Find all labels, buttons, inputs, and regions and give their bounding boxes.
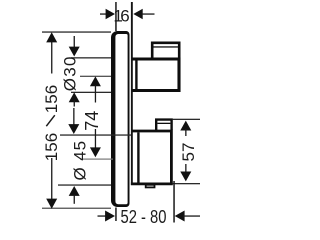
dim 52-80 left ext [115,208,117,222]
lower handle body U2 [131,131,172,184]
escutcheon plate (side profile pill) [111,31,130,207]
svg-text:156: 156 [42,133,61,161]
dim 52-80 arrow right [175,211,185,222]
dim 156/156 line upper [51,42,52,74]
dim 16 tail left [100,13,109,14]
ext line handle axis [80,76,111,77]
ext line 57 bottom [173,183,201,184]
svg-text:Ø 45: Ø 45 [71,140,90,180]
dim O30 tail bottom [74,100,75,107]
dim 156/156 line lower [51,158,52,201]
ext line handle top [71,57,111,58]
lower handle grip [156,120,171,130]
svg-text:16: 16 [113,7,129,26]
dim 52-80 tail right [183,215,200,216]
dim 16 arrow right [133,9,142,19]
dim 156/156 arrow bottom [46,199,57,209]
svg-text:57: 57 [179,143,198,162]
ext line lower grip top left [60,134,131,135]
ext line plate top [42,31,111,32]
dim 52-80 arrow left [105,211,115,222]
svg-text:52 - 80: 52 - 80 [121,207,167,227]
ext line lower axis [80,159,113,160]
dim O45 arrow top [68,124,79,134]
svg-text:156: 156 [42,85,61,113]
dim 156/156 arrow top [46,32,57,42]
dim O30 arrow bottom [69,92,80,102]
lower bottom tab [146,185,155,188]
ext line lower body bottom left [58,184,111,185]
dim 57 arrow bottom [180,172,191,182]
dim 74 arrow top [90,76,101,86]
top handle base line [135,61,137,90]
ext line plate bottom [42,208,111,209]
dim 57 tail top [185,129,186,136]
label slash [46,115,55,126]
dim 74 line upper [95,85,96,103]
lower handle base line [137,132,139,182]
dim O30 arrow top [69,47,80,57]
lower grip inner line [157,123,170,124]
dim 57 arrow top [180,121,191,131]
dim O45 tail bottom [74,195,75,204]
top handle body U1 [132,59,179,91]
top handle grip [152,43,179,58]
ext line 57 top [173,119,201,120]
dim 16 arrow left [106,9,115,19]
dim 74 arrow bottom [90,147,101,157]
dim 74 line lower [95,129,96,150]
dim 16 tail right [142,13,155,14]
top grip inner line [154,46,179,47]
svg-text:74: 74 [82,111,102,131]
dim 57 tail bottom [185,164,186,173]
ext line handle bottom [71,92,111,93]
svg-text:Ø30: Ø30 [60,55,79,91]
wire wall face line [131,2,133,185]
wall depth line right [173,181,175,223]
dim 52-80 tail left [98,215,108,216]
dim O45 arrow bottom [69,186,80,196]
dim O30 tail top [74,36,75,49]
dim 16 left ext [115,2,117,31]
dim O45 tail top [73,108,74,125]
